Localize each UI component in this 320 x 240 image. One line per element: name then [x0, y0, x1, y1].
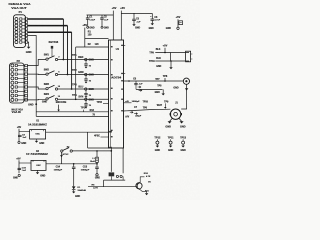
BNC ground lug left [170, 118, 173, 121]
connector P1 pin row 8 [15, 41, 18, 44]
capacitor C6 4.7uF electrolytic [151, 13, 153, 18]
ground of X2 [37, 170, 39, 172]
wire GRN signal from SW2 to encoder U1 [58, 74, 109, 76]
component box above SW1 [51, 46, 53, 49]
diode D1 1N4148 [72, 186, 76, 189]
connector P1 pin row 6 [15, 34, 18, 37]
wire +5V down through R1 [84, 28, 86, 47]
ground stub of P1 [28, 42, 29, 47]
encoder IC U1 body [109, 40, 124, 148]
capacitor C2 .1uF [101, 15, 103, 18]
wire S1 lower line [155, 60, 189, 62]
pin number marks inside U1 [111, 46, 113, 47]
wire P2 row to switch SW1 [27, 60, 46, 66]
wire U1 bottom pin 1 down [110, 148, 112, 172]
capacitor C1 1.0uF [87, 15, 89, 18]
RCA jack J2 [183, 78, 189, 84]
wire link between S1 lines [170, 53, 172, 62]
wire P2 row to switch SW3 [27, 87, 46, 89]
connector P2 body (male VGA D-sub) [10, 63, 25, 103]
wire X2 output [46, 163, 97, 165]
connector P1 body (female VGA D-sub) [14, 15, 26, 48]
series capacitor on video line [128, 80, 130, 82]
junction circle on SYN line [85, 98, 87, 100]
wire U1 bottom pin 2 down [122, 148, 124, 173]
switch SW3 (SPDT) [46, 87, 48, 89]
wire green video (thick) from P1 pin 3 [28, 25, 68, 27]
U1 pin stub left y137 [101, 136, 109, 138]
wire blue video (thick) from P1 pin 5 [28, 31, 72, 33]
wire jack J2 shield down to BNC [181, 84, 186, 109]
switch S1 body [186, 51, 191, 62]
BNC ground lug right [179, 118, 182, 121]
wire P2 row to switch SW2 [27, 73, 46, 75]
U1 pin stub y102.8 with C9 labels [124, 102, 132, 104]
BNC jack J1 body [170, 109, 180, 119]
wire S1 upper line [155, 52, 189, 54]
wire +5V to X1 and C8 [18, 129, 20, 142]
connector P1 pin row 7 [15, 37, 18, 40]
arrow into BNC feed line [164, 103, 166, 107]
oscillator X2 body [31, 160, 46, 170]
pin tick marks on U1 right edge [124, 45, 126, 47]
ground symbol below P1 [27, 47, 31, 49]
wire second feed to encoder [76, 46, 109, 48]
coupling capacitor on GRN with 75 ohm [85, 76, 87, 79]
wire lower sync net [36, 115, 108, 117]
connector P1 pin row 5 [15, 31, 18, 34]
capacitor C3 .1uF [133, 13, 135, 19]
switch SW2 (SPDT) [46, 73, 48, 75]
ground of X1 [36, 139, 38, 141]
connector P2 pin row 6 [11, 86, 14, 89]
wire Q1 emitter to ground [141, 190, 147, 193]
U1 pin stub left y103 [103, 103, 109, 105]
connector P2 pin row 3 [11, 73, 14, 76]
capacitor C14 1000pF [73, 163, 75, 165]
junction on SYN line [75, 98, 77, 100]
capacitor C13 1000pF [96, 164, 98, 167]
wire S2 to U1 clock pin [72, 150, 111, 152]
wire RED signal from SW1 to encoder U1 [58, 59, 109, 61]
switch SW1 (SPDT) [46, 58, 48, 60]
connector P1 pin row 1 [15, 18, 18, 21]
wire red video (thick) from P1 pin 1 [28, 18, 64, 20]
arrow mark on S2 ground branch [60, 155, 63, 157]
wire sync from P1 pin 6 down left side [28, 36, 37, 117]
connector P2 pin row 5 [11, 81, 14, 84]
ground stub of P2 [24, 99, 28, 101]
connector P1 pin row 2 [15, 21, 18, 24]
oscillator X1 body [30, 130, 46, 139]
ground circle of C10 [18, 174, 20, 176]
wire composite video from U1 to jack J2 [124, 80, 184, 82]
wire SYN signal from SW4 to encoder U1 [58, 98, 109, 100]
polarity arrows C4 [138, 86, 141, 88]
junction on RED line [63, 59, 65, 61]
wire oscillator feedback loop bottom to U1 [88, 147, 109, 149]
fourth vertical feed wire [75, 47, 77, 99]
connector P2 pin row 7 [11, 90, 14, 93]
wire +5V to S1 line [164, 48, 166, 53]
coupling capacitor on BLU with 75 ohm [85, 90, 87, 93]
wire chroma line to ground [136, 88, 163, 90]
wire +5V to X2 and C10 [18, 160, 20, 173]
switch S2 clock select [61, 150, 63, 152]
connector P2 pin row 9 [11, 98, 14, 101]
connector P2 pin row 1 [11, 64, 14, 67]
ground of D1 [72, 192, 75, 194]
wire U1 VCC pins up to +5V [112, 11, 114, 40]
junction circle on GRN line [85, 73, 87, 75]
crystal element at U1 clock pins [109, 172, 115, 176]
connector P1 pin row 4 [15, 27, 18, 30]
junction on BLU line [71, 88, 73, 90]
switch SW4 (SPDT) [46, 98, 48, 100]
wire BLU signal from SW3 to encoder U1 [58, 88, 109, 90]
wire bottom rail to base line [103, 180, 105, 187]
wire ENCODE to U1 [36, 111, 108, 113]
wire +5V left decoupling rail [87, 14, 114, 16]
connector P2 pin row 4 [11, 77, 14, 80]
DC input pin circle J2 [177, 27, 179, 29]
ground circle of C8 [18, 141, 20, 143]
DC input terminal component [179, 21, 183, 25]
junction circle on BLU line [85, 88, 87, 90]
junction on GRN line [67, 74, 69, 76]
wire P2 pin bus vertical [26, 66, 28, 100]
wire Q1 collector to R10 [140, 177, 144, 182]
wire oscillator feedback loop vertical [87, 132, 89, 148]
coupling capacitor on SYN with 75 ohm [85, 101, 87, 104]
wire X1 output to switch area [46, 131, 109, 133]
connector P2 pin row 8 [11, 94, 14, 97]
connector P2 pin row 2 [11, 68, 14, 71]
junction circle on RED line [85, 58, 87, 60]
transistor Q1 [136, 183, 142, 189]
wire luma out from U1 to BNC J1 [124, 109, 171, 111]
capacitor C8 .1uF at X1 [18, 134, 22, 136]
ground arrow on chroma line [162, 89, 164, 93]
inductor L1 10uH [96, 150, 98, 152]
capacitor C10 .1uF at X2 [18, 167, 22, 169]
coupling capacitor on RED with 75 ohm [85, 61, 87, 64]
ground arrow under S1 lower line [170, 60, 172, 62]
wire base line to Q1 [88, 186, 136, 188]
wire DC input [177, 19, 179, 27]
wire bottom rail upper [104, 179, 126, 181]
wire X2 output up to switch S2 [61, 152, 63, 164]
wire +5V right decoupling rail [121, 12, 152, 14]
pin marks at U1 oscillator entries [109, 131, 112, 133]
wire P2 row to switch SW4 [27, 98, 46, 101]
connector P1 pin row 3 [15, 24, 18, 27]
wire R1 to encoder pin [85, 38, 109, 40]
